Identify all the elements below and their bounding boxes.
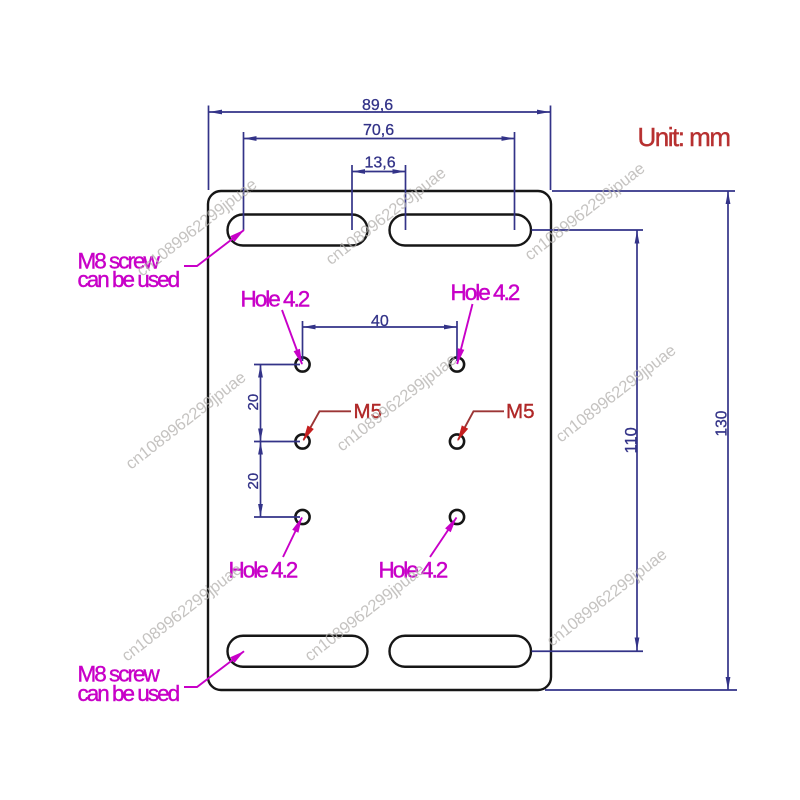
blue dimension texts xyxy=(245,97,731,490)
arrow 110 bottom xyxy=(635,638,640,651)
dim 110 extension top xyxy=(532,229,644,231)
arrow 110 top xyxy=(635,231,640,244)
red M5 labels xyxy=(354,400,535,423)
dim 13,6 line xyxy=(352,171,406,173)
dim 20 top line xyxy=(260,365,262,442)
arrowhead hole BL xyxy=(292,517,302,533)
hole top-left xyxy=(295,357,309,371)
dim 70,6 extension right xyxy=(514,132,516,230)
leader M8 bottom xyxy=(184,651,244,687)
arrowhead M8 bottom xyxy=(230,651,244,663)
arrow 13,6 left xyxy=(352,169,365,174)
svg-text:110: 110 xyxy=(623,427,641,453)
hole top-right xyxy=(450,357,464,371)
dim 70,6 line xyxy=(244,138,515,140)
arrow 89,6 left xyxy=(209,110,222,115)
arrow 40 right xyxy=(444,325,457,330)
magenta labels xyxy=(78,249,520,707)
dim 89,6 extension left xyxy=(208,106,210,191)
arrowhead hole TR xyxy=(457,348,464,364)
dim 130 line xyxy=(727,191,729,690)
hole mid-left M5 xyxy=(295,434,309,448)
slot top-left xyxy=(228,215,368,246)
dim 130 extension top xyxy=(552,190,735,192)
svg-text:Hole 4.2: Hole 4.2 xyxy=(241,287,310,312)
dim 110 line xyxy=(636,230,638,651)
dim 40 line xyxy=(303,326,458,328)
arrow 70,6 left xyxy=(244,136,257,141)
arrow 130 bottom xyxy=(726,677,731,690)
leader hole BL xyxy=(283,518,302,558)
svg-text:13,6: 13,6 xyxy=(365,155,396,172)
leader hole BR xyxy=(430,518,457,558)
svg-text:can be used: can be used xyxy=(78,267,180,292)
slot bottom-left xyxy=(228,636,368,667)
arrowhead M5 left xyxy=(303,426,314,442)
dim 20 bottom line xyxy=(260,442,262,518)
arrowhead M8 top xyxy=(230,230,244,242)
dim 110 extension bottom xyxy=(532,650,644,652)
dim 13,6 extension right xyxy=(405,165,407,230)
red leaders xyxy=(304,411,505,440)
arrow 20bot up xyxy=(258,442,263,455)
arrow 89,6 right xyxy=(537,110,550,115)
watermark layer xyxy=(118,159,679,665)
dim 89,6 line xyxy=(209,111,550,113)
slot bottom-right xyxy=(390,636,532,667)
magenta leaders xyxy=(184,230,473,687)
hole bottom-right xyxy=(450,510,464,524)
hole mid-right M5 xyxy=(450,434,464,448)
slot top-right xyxy=(390,215,532,246)
leader M5 left xyxy=(304,411,352,440)
svg-text:20: 20 xyxy=(245,394,262,411)
svg-text:70,6: 70,6 xyxy=(363,122,394,139)
arrowhead hole BR xyxy=(445,517,457,532)
leader M8 top xyxy=(184,230,244,266)
svg-text:can be used: can be used xyxy=(78,681,180,706)
svg-text:40: 40 xyxy=(371,313,389,330)
red arrowheads xyxy=(303,425,468,441)
arrow 20top down xyxy=(258,429,263,442)
leader hole TL xyxy=(282,310,302,364)
svg-text:20: 20 xyxy=(245,473,262,490)
arrow 130 top xyxy=(726,191,731,204)
dim 40 extension right xyxy=(456,321,458,361)
magenta arrowheads xyxy=(230,230,464,663)
blue dimension graphics xyxy=(209,106,738,691)
arrow 20bot down xyxy=(258,504,263,517)
dim 13,6 extension left xyxy=(351,165,353,230)
svg-text:Hole 4.2: Hole 4.2 xyxy=(451,280,520,305)
svg-text:M5: M5 xyxy=(506,400,534,423)
dim 40 extension left xyxy=(302,321,304,361)
blue arrowheads xyxy=(209,110,730,690)
arrow 70,6 right xyxy=(502,136,515,141)
extension at hole row3 xyxy=(254,516,300,518)
hole bottom-left xyxy=(295,510,309,524)
dim 89,6 extension right xyxy=(550,106,552,191)
leader hole TR xyxy=(457,304,472,364)
svg-text:89,6: 89,6 xyxy=(362,97,393,114)
dim 70,6 extension left xyxy=(243,132,245,230)
svg-text:Unit: mm: Unit: mm xyxy=(638,122,730,152)
arrowhead hole TL xyxy=(294,349,303,365)
extension at hole row2 xyxy=(254,441,300,443)
dim 130 extension bottom xyxy=(545,689,737,691)
leader M5 right xyxy=(458,411,504,440)
arrow 20top up xyxy=(258,365,263,378)
arrowhead M5 right xyxy=(457,425,468,441)
plate outline xyxy=(208,191,551,690)
arrow 13,6 right xyxy=(393,169,406,174)
extension at hole row1 xyxy=(254,364,300,366)
arrow 40 left xyxy=(303,325,316,330)
svg-text:130: 130 xyxy=(714,410,731,436)
